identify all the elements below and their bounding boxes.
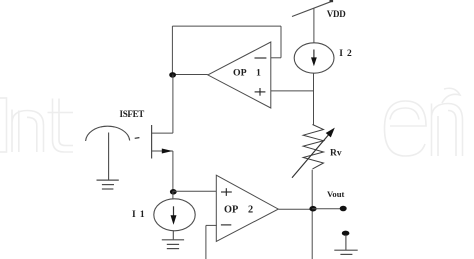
svg-text:ISFET: ISFET (120, 109, 145, 119)
current source I2 circle (294, 43, 334, 73)
label tilde between electrode and gate (135, 137, 140, 140)
wire: node B down to current source I1 (172, 191, 174, 199)
power rail VDD diagonal (292, 1, 332, 16)
wire: node C to Vout terminal (312, 208, 340, 210)
wire: node B to OP2 non-inverting input (173, 190, 217, 192)
watermark left "Int" (0, 98, 73, 152)
wire: node A down to ISFET drain (172, 74, 174, 133)
op-amp OP1 (pointing left) (208, 42, 271, 108)
wire: VDD rail down to I2 (313, 9, 315, 43)
node C junction dot (309, 206, 316, 212)
watermark right "en" (385, 88, 463, 156)
ground (right of OP2 output) (334, 250, 357, 254)
svg-text:I 1: I 1 (132, 210, 146, 220)
ground (below I1) (162, 240, 184, 249)
op-amp OP2 (pointing right) (216, 175, 278, 241)
transistor ISFET source arrow (162, 149, 173, 154)
label OP2 plus input (221, 188, 232, 196)
wire: feedback left vertical down to node A (171, 26, 173, 74)
ground (reference electrode) (97, 180, 119, 189)
wire: ISFET source down to node B (172, 151, 174, 191)
reference electrode rod (108, 133, 110, 180)
svg-text:Rv: Rv (330, 148, 342, 158)
terminal Vout dot (340, 206, 347, 212)
wire: OP2 inverting input stub (206, 224, 217, 226)
wire: ISFET drain tap (152, 132, 173, 134)
wire: feedback right vertical to OP1 inverting input (280, 26, 282, 58)
label OP1 plus input (255, 88, 266, 96)
power rail VDD tip mark (330, 0, 334, 2)
svg-text:OP: OP (233, 67, 247, 78)
resistor Rv variable arrow shaft (292, 133, 331, 178)
wire: OP2 output to node C (279, 208, 313, 210)
resistor Rv zigzag (303, 125, 323, 169)
current source I1 circle (154, 199, 195, 231)
node A junction dot (169, 72, 176, 78)
wire: right ground rod (345, 235, 347, 250)
current source I1 arrow (173, 206, 175, 217)
wire: OP1 output to node A (172, 74, 207, 76)
label OP1 minus input (255, 57, 267, 59)
node B junction dot (170, 189, 177, 195)
svg-text:1: 1 (256, 67, 261, 78)
svg-text:VDD: VDD (327, 9, 346, 19)
svg-text:2: 2 (248, 205, 253, 216)
wire: OP1 inverting input stub (271, 57, 281, 59)
resistor Rv variable arrow head (326, 128, 335, 138)
reference electrode arc (86, 126, 130, 141)
terminal dot above right ground (342, 231, 350, 236)
svg-text:Vout: Vout (327, 189, 344, 199)
wire: Rv down to node C and image bottom (311, 170, 313, 259)
current source I2 arrow (313, 50, 315, 60)
transistor ISFET channel bar (151, 125, 153, 159)
label OP2 minus input (221, 224, 231, 226)
svg-text:OP: OP (224, 205, 238, 216)
svg-text:I 2: I 2 (339, 49, 353, 59)
wire: OP1 non-inverting input to I2/Rv net (271, 90, 314, 92)
wire: OP2 feedback down to image bottom (205, 225, 207, 259)
wire: I2 down to resistor Rv (313, 73, 315, 124)
wire: feedback top horizontal (172, 25, 281, 27)
wire: I1 to ground (172, 231, 174, 240)
wire: ISFET source tap (152, 150, 173, 152)
